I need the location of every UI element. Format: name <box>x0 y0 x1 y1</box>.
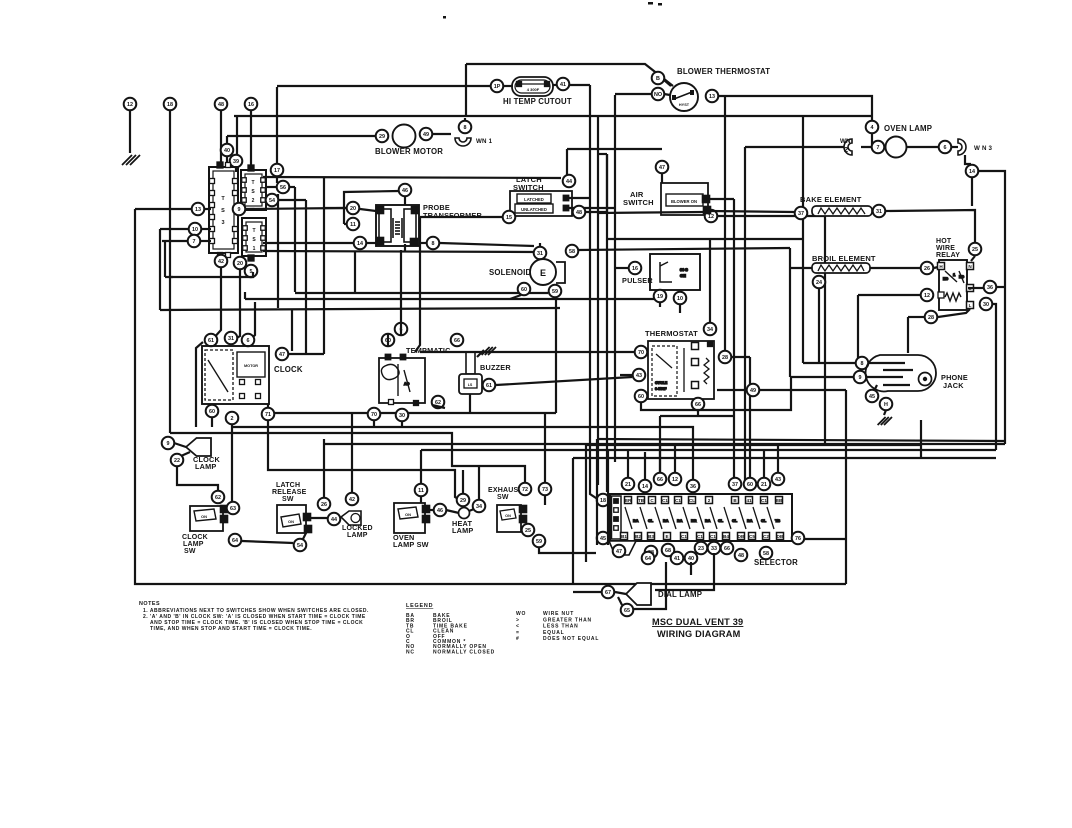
svg-text:21: 21 <box>761 482 767 488</box>
wire x573 drop <box>572 458 574 584</box>
pin TB1 right 1 <box>261 226 266 231</box>
svg-text:20: 20 <box>237 261 243 267</box>
svg-text:39: 39 <box>233 159 239 165</box>
node 60 <box>382 334 395 347</box>
node 56 <box>277 181 290 194</box>
wire blower left <box>227 135 375 137</box>
ground buzzer <box>482 347 496 355</box>
wire node39 stub <box>235 168 237 172</box>
svg-text:ON: ON <box>405 512 411 517</box>
wire y310 bus <box>160 308 560 310</box>
wire below TB3 b <box>232 270 240 341</box>
node 54 <box>266 194 279 207</box>
pin selector top 10 <box>761 497 768 504</box>
wire node73 stub <box>544 496 546 505</box>
svg-text:BB: BB <box>776 498 783 503</box>
svg-text:68: 68 <box>665 548 671 554</box>
svg-text:NO: NO <box>654 92 662 98</box>
svg-text:WIRING DIAGRAM: WIRING DIAGRAM <box>657 629 741 639</box>
wire node61b right <box>496 377 632 385</box>
wire y251 stub <box>404 244 406 251</box>
switch S7 internal <box>500 509 516 520</box>
svg-text:17: 17 <box>274 168 280 174</box>
svg-text:44: 44 <box>331 517 337 523</box>
wire x825 drop <box>824 216 826 444</box>
svg-text:13: 13 <box>195 207 201 213</box>
wire probe right y243 <box>420 242 426 244</box>
node 43 <box>772 473 785 486</box>
wire x324 mid <box>323 177 325 354</box>
svg-text:6: 6 <box>944 145 947 151</box>
wire node6 to WN3 <box>952 146 958 148</box>
svg-text:NC: NC <box>959 275 964 279</box>
wire y149 link <box>567 148 662 150</box>
svg-text:19: 19 <box>657 294 663 300</box>
lamp E4 LOCKED LAMP <box>341 511 361 525</box>
node 26 <box>921 262 934 275</box>
node 7 <box>872 141 885 154</box>
svg-text:2: 2 <box>708 498 711 503</box>
svg-text:11: 11 <box>350 222 356 228</box>
wire node14 down <box>971 178 973 206</box>
wire phone top bar <box>803 362 855 364</box>
node 42 <box>346 493 359 506</box>
node 45 <box>597 532 610 545</box>
wire node24 drop <box>818 289 820 363</box>
svg-text:12: 12 <box>708 214 714 220</box>
wire x750 drop <box>749 357 751 478</box>
wire x846 drop <box>845 390 847 584</box>
wire sel riser 628 <box>627 450 629 478</box>
svg-text:DOES NOT EQUAL: DOES NOT EQUAL <box>543 636 599 642</box>
terminal block TB2 inner <box>245 174 262 206</box>
switch S7 EXHAUST SW box <box>497 505 521 532</box>
svg-text:LS: LS <box>468 383 473 387</box>
node NO <box>652 88 665 101</box>
svg-text:10: 10 <box>677 296 683 302</box>
wire stair y427 <box>232 427 693 480</box>
wire node36 right <box>996 286 1005 288</box>
svg-text:41: 41 <box>746 498 752 503</box>
wire node26 to relay <box>934 267 938 268</box>
wire node30b stub <box>401 422 403 427</box>
wire node20 to pin <box>360 209 376 211</box>
node 38 <box>645 546 658 559</box>
wire node6c stub <box>400 322 402 336</box>
svg-text:B4: B4 <box>723 534 729 539</box>
svg-text:E: E <box>665 534 668 539</box>
node 15 <box>503 211 516 224</box>
pin hi-temp right <box>545 82 550 87</box>
node 34 <box>704 323 717 336</box>
wire x173 link <box>170 276 173 278</box>
wire sel bottom drop 714 <box>655 553 714 590</box>
node 30 <box>396 409 409 422</box>
svg-text:28: 28 <box>928 315 934 321</box>
svg-text:UNLATCHED: UNLATCHED <box>521 207 547 212</box>
pulser U2 box <box>650 254 700 290</box>
pin S4 b <box>220 515 227 522</box>
wire y277 link <box>165 272 253 277</box>
pin selector bottom 9 <box>738 533 745 540</box>
wire x401 riser <box>400 250 402 322</box>
svg-text:LAMP: LAMP <box>347 532 368 539</box>
node 20 <box>234 257 247 270</box>
node 45 <box>866 390 879 403</box>
pin TB2 right 3 <box>261 198 266 203</box>
node 60 <box>206 405 219 418</box>
wire x660 drop <box>659 416 661 476</box>
pin TB3 left 3 <box>210 203 215 208</box>
wire x858 drop <box>857 295 859 362</box>
node 11 <box>415 484 428 497</box>
pin selector top 1 <box>625 497 632 504</box>
svg-text:C1: C1 <box>681 534 687 539</box>
node 64 <box>642 552 655 565</box>
wire node60b link <box>510 295 521 299</box>
pin selector bottom 4 <box>664 533 671 540</box>
svg-text:SELECTOR: SELECTOR <box>754 558 798 567</box>
wire node30 right <box>993 304 996 450</box>
svg-text:41: 41 <box>560 82 566 88</box>
wire node31b stub <box>539 243 541 246</box>
node 11 <box>347 218 360 231</box>
node 70 <box>635 346 648 359</box>
pin tempmatic b <box>400 354 406 360</box>
svg-text:16: 16 <box>248 102 254 108</box>
node 46 <box>434 504 447 517</box>
pin selector top 9 <box>746 497 753 504</box>
svg-text:LOCKED: LOCKED <box>342 525 373 532</box>
wire x790 drop <box>789 248 791 377</box>
svg-text:C1: C1 <box>662 498 668 503</box>
lamp E3 CLOCK LAMP <box>186 438 211 456</box>
wire TB1 to probe y243 <box>263 242 353 244</box>
node 8 <box>856 357 869 370</box>
heating element R2 BROIL ELEMENT <box>812 263 870 273</box>
wire node59b drop <box>539 548 596 553</box>
svg-text:MSC DUAL VENT 39: MSC DUAL VENT 39 <box>652 617 743 627</box>
wire x803 riser <box>802 116 804 363</box>
svg-text:RELEASE: RELEASE <box>272 489 307 496</box>
wire y209 right <box>246 208 346 209</box>
wire y292 solenoid bus <box>295 292 548 294</box>
svg-text:7: 7 <box>877 145 880 151</box>
svg-text:41: 41 <box>674 556 680 562</box>
wire node71 drop staircase <box>268 421 460 500</box>
svg-text:JACK: JACK <box>943 381 964 390</box>
svg-text:43: 43 <box>636 373 642 379</box>
node 6 <box>939 141 952 154</box>
clock A1 motor box <box>237 352 265 377</box>
thermostat A3 internals <box>655 348 709 392</box>
pin air right <box>702 195 709 202</box>
svg-text:WIRE NUT: WIRE NUT <box>543 611 574 617</box>
wire x255 drop <box>249 302 255 341</box>
svg-text:37: 37 <box>732 482 738 488</box>
svg-text:10: 10 <box>192 227 198 233</box>
svg-text:3: 3 <box>221 220 224 226</box>
wire stair y444 <box>324 443 1005 445</box>
svg-text:71: 71 <box>265 412 271 418</box>
wire-nut WN3 <box>958 139 966 155</box>
node 48 <box>215 98 228 111</box>
wire y243 to solenoid <box>440 243 534 246</box>
node 70 <box>368 408 381 421</box>
node 48 <box>735 549 748 562</box>
wire channel x615 <box>614 95 616 462</box>
pin TB1 left 3 <box>243 246 248 251</box>
wire bake left bus <box>598 212 704 213</box>
node 20 <box>347 202 360 215</box>
svg-text:60: 60 <box>209 409 215 415</box>
node 28 <box>719 351 732 364</box>
selector left column <box>612 496 622 539</box>
wire stair y458 <box>573 457 996 459</box>
node 36 <box>687 480 700 493</box>
svg-text:ON: ON <box>201 514 207 519</box>
svg-text:LAMP: LAMP <box>195 462 216 471</box>
svg-text:WIRE: WIRE <box>936 245 955 252</box>
node 23 <box>695 542 708 555</box>
svg-text:BA: BA <box>633 519 639 523</box>
legend text block <box>406 603 495 655</box>
svg-text:34: 34 <box>476 504 482 510</box>
node 68 <box>662 544 675 557</box>
wire bake left <box>710 211 794 212</box>
svg-text:CL: CL <box>648 519 654 523</box>
wire heat lamp link <box>446 510 459 513</box>
wire sel riser 764 <box>763 450 765 478</box>
pin TB3 right 3 <box>233 227 238 232</box>
pin A3 m <box>692 359 699 366</box>
svg-text:0-550F: 0-550F <box>655 387 667 391</box>
wire phone mid bar <box>791 376 853 378</box>
switch S6 internal <box>398 507 418 519</box>
pin TB2 left 1 <box>242 178 247 183</box>
pin TB3 bottom a <box>218 253 223 258</box>
svg-text:64: 64 <box>232 538 238 544</box>
wire riser x237 <box>236 116 238 154</box>
pin TB3 right 2 <box>233 191 238 196</box>
svg-text:LAMP: LAMP <box>452 526 473 535</box>
wire x608 drop <box>607 451 609 545</box>
svg-text:CL: CL <box>689 498 695 503</box>
node 41 <box>671 552 684 565</box>
switch S2 LATCH SWITCH box <box>510 191 572 216</box>
wire node9 link <box>174 443 186 447</box>
pin selector-left 1 <box>614 499 619 504</box>
svg-text:58: 58 <box>569 249 575 255</box>
wire clock left loop <box>196 342 203 427</box>
pin K1 N <box>967 263 974 270</box>
svg-text:CLOCK: CLOCK <box>274 365 303 374</box>
wire node10 to TB3 <box>201 228 211 230</box>
svg-text:64: 64 <box>645 556 651 562</box>
svg-text:ON: ON <box>288 519 294 524</box>
svg-text:LATCHED: LATCHED <box>524 197 544 202</box>
wire left bus y209 <box>135 208 192 210</box>
pin A3 t <box>692 343 699 350</box>
node 40 <box>685 552 698 565</box>
node 48 <box>573 206 586 219</box>
selector assembly box <box>610 494 792 541</box>
svg-text:E: E <box>540 268 546 278</box>
thermal cutout U1 HI TEMP CUTOUT <box>512 77 553 96</box>
node 16 <box>245 98 258 111</box>
wire broil left <box>790 267 812 269</box>
clock A1 dashed section <box>205 350 233 400</box>
svg-text:60: 60 <box>747 482 753 488</box>
wire node12b out <box>718 215 825 217</box>
pin A3 top2 <box>708 342 713 347</box>
pin TB2 left 3 <box>242 198 247 203</box>
svg-text:25: 25 <box>525 528 531 534</box>
wire node2 drop <box>231 425 233 501</box>
wire x324 low <box>323 439 325 501</box>
svg-text:9: 9 <box>167 441 170 447</box>
wire main top bus <box>234 115 871 117</box>
pin selector top 5 <box>675 497 682 504</box>
wire from node 16 to TB2 <box>250 110 252 166</box>
wire x734 drop <box>733 199 735 480</box>
node 31 <box>534 247 547 260</box>
svg-text:GREATER THAN: GREATER THAN <box>543 617 592 623</box>
node 61 <box>205 334 218 347</box>
svg-text:47: 47 <box>659 165 665 171</box>
svg-text:BAKE ELEMENT: BAKE ELEMENT <box>800 195 862 204</box>
wire node11 link <box>344 223 346 225</box>
switch S2 UNLATCHED contact <box>515 204 553 213</box>
wire sel riser 645 <box>644 452 646 480</box>
wire x306 drop <box>305 200 307 353</box>
pin selector-left 2 <box>614 508 619 513</box>
svg-text:8: 8 <box>464 125 467 131</box>
svg-text:56: 56 <box>280 185 286 191</box>
wire node42 riser <box>351 413 353 493</box>
wire node56 to x295 <box>289 186 295 188</box>
svg-text:45: 45 <box>869 394 875 400</box>
node 12 <box>124 98 137 111</box>
svg-text:31: 31 <box>876 209 882 215</box>
wire IP drop <box>276 87 278 163</box>
wire node44 riser <box>566 149 568 175</box>
wire node66b stub <box>697 411 699 416</box>
switch S4 internal <box>194 509 216 521</box>
node 37 <box>729 478 742 491</box>
pin TB2 right 1 <box>261 178 266 183</box>
svg-text:WN 1: WN 1 <box>476 138 493 145</box>
svg-text:14: 14 <box>357 241 363 247</box>
svg-text:46: 46 <box>402 188 408 194</box>
switch S5 internal <box>281 514 301 527</box>
lamp E2 OVEN LAMP <box>886 137 907 158</box>
svg-text:67: 67 <box>605 590 611 596</box>
svg-text:58: 58 <box>763 551 769 557</box>
svg-text:T: T <box>252 228 255 234</box>
wire node29b riser <box>462 470 464 494</box>
svg-text:42: 42 <box>218 259 224 265</box>
svg-text:12: 12 <box>924 293 930 299</box>
svg-text:=: = <box>516 630 520 636</box>
wire node15 bus <box>420 216 502 218</box>
svg-text:25: 25 <box>972 247 978 253</box>
svg-text:C1: C1 <box>697 534 703 539</box>
node 42 <box>215 255 228 268</box>
node 41 <box>557 78 570 91</box>
svg-text:BR: BR <box>691 519 697 523</box>
speck c <box>443 16 446 19</box>
svg-text:73: 73 <box>542 487 548 493</box>
svg-text:61: 61 <box>208 338 214 344</box>
wire WN3 down <box>965 155 971 164</box>
svg-text:8: 8 <box>861 361 864 367</box>
svg-text:ON: ON <box>505 514 511 518</box>
wire node45 link <box>875 385 877 389</box>
node 10 <box>189 223 202 236</box>
wire left y241 <box>162 240 188 242</box>
ground <box>122 155 140 165</box>
thermostat S1 BLOWER THERMOSTAT <box>670 83 698 111</box>
switch S3 BLOWER ON contact <box>666 194 703 206</box>
wire blower right <box>433 133 451 135</box>
selector flag <box>609 541 636 555</box>
wire channel x607 <box>606 154 608 492</box>
wire blower thermostat to node 13 bus <box>718 96 872 120</box>
svg-text:30: 30 <box>983 302 989 308</box>
wire node19 stub <box>659 303 661 307</box>
pin TB3 left 5 <box>210 227 215 232</box>
ground phone jack <box>878 417 892 425</box>
wire sel bottom drop 691 <box>690 562 692 575</box>
wire node47 stub <box>661 174 663 183</box>
pin selector bottom 8 <box>723 533 730 540</box>
svg-text:66: 66 <box>695 402 701 408</box>
wire node44b to lamp <box>340 517 341 518</box>
node 44 <box>563 175 576 188</box>
svg-text:61: 61 <box>486 383 492 389</box>
wire node NO link <box>664 94 670 95</box>
node 14 <box>354 237 367 250</box>
terminal block TB3 inner <box>213 171 234 249</box>
svg-text:CLOCK: CLOCK <box>182 534 208 541</box>
svg-text:72: 72 <box>522 487 528 493</box>
svg-text:BLOWER ON: BLOWER ON <box>671 199 697 204</box>
pin latch b <box>563 205 569 211</box>
pin T1 b <box>376 237 383 244</box>
node 9 <box>162 437 175 450</box>
svg-text:9: 9 <box>859 375 862 381</box>
clock A1 dial <box>208 360 228 392</box>
svg-text:C5: C5 <box>749 534 755 539</box>
svg-text:OVEN LAMP: OVEN LAMP <box>884 124 932 133</box>
switch S3 AIR SWITCH box <box>661 183 708 215</box>
node 67 <box>602 586 615 599</box>
svg-text:CL: CL <box>718 519 724 523</box>
wire sel bottom drop 666 <box>634 562 666 609</box>
svg-text:SW: SW <box>497 494 509 501</box>
terminal block TB2 outer <box>241 170 266 210</box>
node 40 <box>221 144 234 157</box>
wire node34b riser <box>478 466 480 500</box>
wire below node 17 <box>276 177 278 183</box>
wire node59 drop <box>555 298 557 413</box>
wire channel x598 <box>597 116 599 485</box>
node 47 <box>276 348 289 361</box>
pin K1 B <box>967 285 974 292</box>
svg-text:WO: WO <box>516 611 526 617</box>
svg-text:TB: TB <box>638 498 645 503</box>
